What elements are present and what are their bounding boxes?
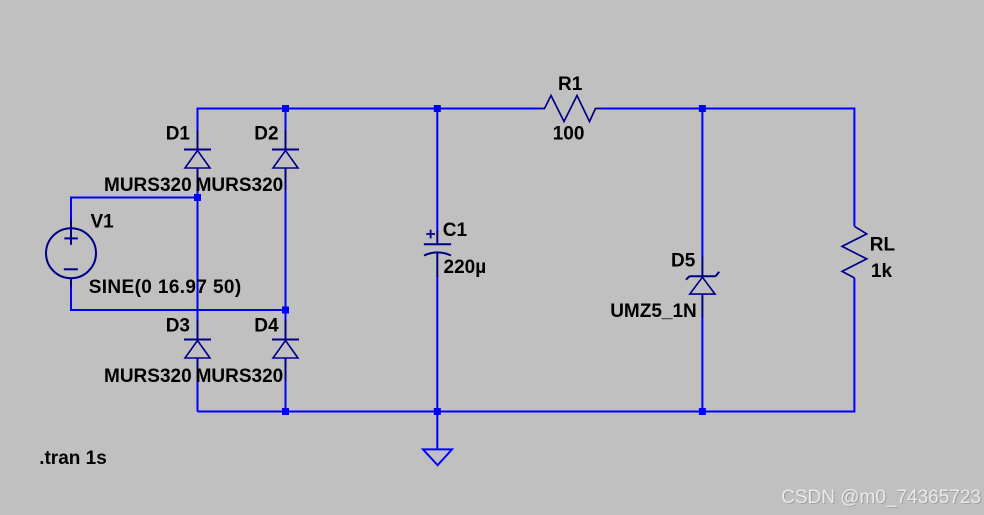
- svg-text:V1: V1: [91, 212, 115, 233]
- wire RL column upper: [853, 108, 855, 227]
- svg-text:SINE(0 16.97 50): SINE(0 16.97 50): [89, 277, 242, 298]
- wire D1 top stub: [197, 108, 199, 132]
- wire top rail left (node out of bridge to R1): [198, 108, 540, 110]
- svg-text:D5: D5: [671, 250, 696, 271]
- wire D4 bottom to bottom rail: [285, 379, 287, 412]
- wire bottom rail: [198, 411, 855, 413]
- svg-text:MURS320: MURS320: [104, 366, 192, 387]
- svg-text:MURS320: MURS320: [196, 175, 284, 196]
- resistor RL: [842, 226, 867, 278]
- wire C1 column upper: [436, 108, 438, 233]
- junction node at D2 top: [282, 105, 289, 112]
- junction node at D5 top: [699, 105, 706, 112]
- svg-text:R1: R1: [558, 74, 583, 95]
- svg-text:C1: C1: [443, 220, 468, 241]
- svg-text:MURS320: MURS320: [196, 366, 284, 387]
- diode D1: [184, 130, 211, 190]
- wire D5 column upper: [701, 108, 703, 258]
- junction node D5 bottom: [699, 408, 706, 415]
- zener diode D5: [686, 257, 719, 317]
- junction node C1 bottom: [434, 408, 441, 415]
- svg-text:D1: D1: [166, 124, 191, 145]
- svg-text:D2: D2: [254, 124, 278, 145]
- svg-text:D3: D3: [166, 316, 190, 337]
- capacitor C1: [424, 230, 451, 277]
- wire D5 column lower: [701, 316, 703, 412]
- wire V1 minus rail: [70, 309, 286, 311]
- svg-text:CSDN @m0_74365723: CSDN @m0_74365723: [781, 487, 981, 508]
- wire V1 top lead: [70, 197, 72, 220]
- wire D3 bottom to bottom rail: [197, 379, 199, 412]
- svg-text:RL: RL: [870, 234, 896, 255]
- diode D4: [272, 320, 299, 380]
- junction node at C1 top: [434, 105, 441, 112]
- svg-text:220µ: 220µ: [444, 257, 487, 278]
- svg-text:100: 100: [553, 123, 585, 144]
- svg-text:D4: D4: [254, 316, 279, 337]
- wire V1 plus rail: [71, 197, 198, 199]
- ground: [423, 449, 452, 465]
- wire V1 bottom lead: [70, 287, 72, 310]
- junction node D4 bottom: [282, 408, 289, 415]
- diode D3: [184, 320, 211, 380]
- svg-text:UMZ5_1N: UMZ5_1N: [610, 301, 697, 322]
- wire RL column lower: [853, 278, 855, 413]
- voltage source V1: [46, 220, 96, 288]
- wire top rail right (R1 to RL): [601, 108, 854, 110]
- wire C1 column lower: [436, 276, 438, 412]
- svg-text:.tran 1s: .tran 1s: [39, 448, 107, 469]
- wire ground stub: [436, 412, 438, 450]
- svg-text:MURS320: MURS320: [104, 175, 192, 196]
- svg-text:1k: 1k: [871, 261, 893, 282]
- resistor R1: [540, 96, 602, 122]
- wire D2 bottom to D4 top: [285, 189, 287, 321]
- diode D2: [272, 130, 299, 190]
- watermark: [781, 487, 982, 509]
- wire D1 bottom to D3 top: [197, 189, 199, 321]
- junction node V1 plus to bridge: [194, 194, 201, 201]
- junction node V1 minus to bridge: [282, 307, 289, 314]
- wire D2 top stub: [285, 108, 287, 132]
